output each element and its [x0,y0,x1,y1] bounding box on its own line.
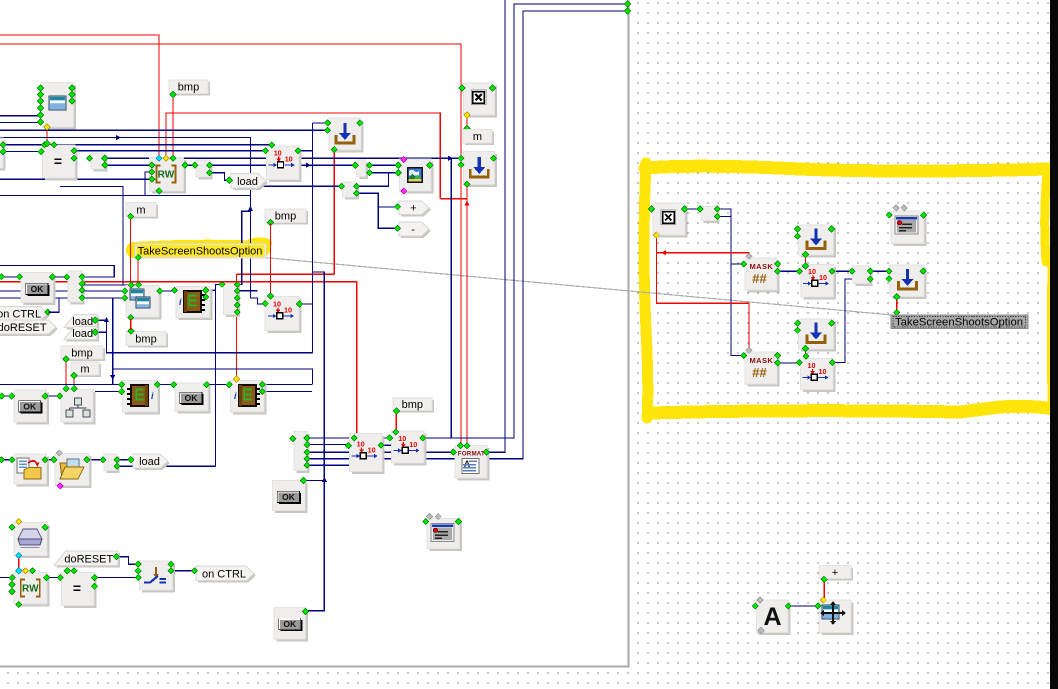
red arrow up [464,201,469,206]
component delay 10 block R2 [801,359,836,393]
component RW file block 1 [149,158,186,194]
label minus [399,222,431,238]
wire blue abox to move [789,605,817,607]
svg-text:bmp: bmp [275,211,296,223]
wire blue mask2 to tenboxR2 [778,362,799,364]
svg-text:10: 10 [274,149,282,158]
label load 4 [64,326,99,341]
yellow marker rectangle left stroke [644,163,648,418]
label bmp 1 [169,80,210,96]
wire blue bus y137 [0,138,264,304]
label load 1 [231,174,268,191]
hub point R1 [701,207,720,224]
wire blue hub5 buses y465 [308,464,361,466]
svg-text:load: load [72,328,93,340]
svg-text:load: load [237,176,258,188]
component window copy block [126,286,162,320]
wire blue v312 to bus353 [311,304,313,353]
component equals block 1 [43,145,78,181]
component small box at left edge [0,138,6,171]
wire red save1 drop [333,151,335,274]
wire red form to eq [46,128,48,142]
wire blue v112 [112,298,114,385]
svg-text:on CTRL: on CTRL [202,568,246,580]
component form window U1 [42,83,76,130]
wire blue hub5 buses y458 [308,11,628,459]
wire blue okA to hub [52,276,67,278]
label bmp 4 [393,398,434,413]
svg-text:bmp: bmp [402,399,423,411]
wire red key drop [18,556,20,569]
svg-text:=: = [54,153,62,169]
component delay 10 block mid [265,297,302,334]
node canvas edge pin 1 [624,1,630,7]
label TakeScreenShootsOption yellow [135,244,266,259]
svg-text:+: + [832,567,838,579]
component folder picture block [55,454,92,489]
wire blue hubB up [357,173,389,187]
component save bitmap 2 [463,152,497,188]
svg-text:m: m [473,131,482,143]
svg-text:10: 10 [409,440,417,449]
wire blue bus y186 [60,186,123,285]
wire blue hubB to plus [357,193,397,207]
wire red junction y199 [440,198,467,200]
svg-text:bmp: bmp [178,82,199,94]
wire blue mask1 to tenboxR1 [778,270,800,272]
hub point 1 [91,153,108,172]
wire blue left y123 [0,122,40,124]
wire blue y144 [3,144,269,146]
wire blue hubA2 to picture2 [370,172,397,174]
wire blue v451 [450,158,452,438]
svg-text:load: load [139,456,160,468]
label m 3 [71,362,101,377]
svg-text:A: A [763,603,781,631]
wire blue hub2 to load [210,173,228,181]
blue arrow right y165 [306,163,311,168]
wire blue hubR2 down [833,279,852,363]
wire red xbox pin stub [466,116,468,127]
component OK button C [175,383,211,414]
wire red bmp drop [172,94,174,157]
wire red bmp2 drop [270,223,272,295]
hub point B [343,182,360,200]
label plus [399,201,431,217]
wire red h274 [237,273,335,275]
hub point R2 [853,266,873,286]
wire red to FORMAT pin2 [466,199,468,443]
component delay 10 block R1 [801,265,836,300]
svg-text:on CTRL: on CTRL [0,309,41,321]
wire red to ibox2 [236,274,238,376]
label doRESET [54,551,120,568]
wire red xbox2 branch [656,253,749,255]
wire blue v505 [487,0,505,452]
wire blue tenboxR1 to hubR2 [833,270,853,272]
wire blue xbox2 to hubR1 [686,208,700,210]
wire blue v731 to mask1 [731,263,745,265]
svg-text:10: 10 [819,367,827,376]
label on CTRL left-cut [0,307,50,323]
wire red plus2 drop [823,580,825,599]
wire blue switch feed [117,557,137,565]
component document open block [14,454,49,487]
wire red bmp3 drop [65,360,67,386]
wire blue bus y297 [0,297,124,299]
yellow marker rectangle bottom stroke [650,406,1054,413]
label m 2 [126,202,158,218]
svg-text:MASK: MASK [750,262,774,271]
wire blue to minus [378,207,396,228]
wire red from save2 bottom [466,186,468,199]
component MASK block 1 [745,258,780,293]
wire blue rw left loop [145,172,151,196]
svg-text:OK: OK [282,492,296,502]
component keyboard key block [14,522,50,558]
svg-text:10: 10 [357,440,365,449]
wire blue tree to ibox1 [95,391,121,393]
wire blue switch to onctrl [172,570,194,572]
svg-text:10: 10 [808,361,816,370]
svg-text:10: 10 [808,267,816,276]
wire blue load4 link [96,331,107,333]
svg-text:bmp: bmp [135,334,156,346]
wire blue doc chain1 [0,459,12,461]
wire blue ok3 to v324 [305,480,325,482]
svg-text:OK: OK [23,401,37,411]
svg-text:##: ## [752,365,767,380]
component move window block [819,600,854,635]
wire red saveR2 to label [896,298,898,313]
svg-text:+: + [410,203,416,215]
label bmp 3 [61,346,105,361]
label load 2 [133,454,170,470]
label bmp 2 [265,209,308,225]
svg-text:FORMAT: FORMAT [458,451,485,458]
wire blue folder to hubC [88,459,104,461]
label TakeScreenShootsOption gray [891,315,1028,329]
wire blue hubR2 to saveR2 [871,270,888,272]
gray drag line from yellow label to gray label [138,246,892,315]
blue arrow up on x324 [322,477,327,482]
wire blue hubR1 to masks [718,209,746,356]
wire blue ibox2 to hub [263,391,312,393]
svg-text:##: ## [752,271,767,286]
svg-text:doRESET: doRESET [0,322,47,334]
wire blue U jog [0,266,114,277]
svg-text:OK: OK [31,284,45,294]
wire red xbox2 tree [656,236,749,349]
svg-text:RW: RW [158,170,175,181]
blue arrow right on y158 [448,156,453,161]
wire red bus y113 [166,113,440,199]
component save bitmap 1 [329,118,364,153]
wire blue hubC up to v215 [118,465,216,467]
component equals block 2 [62,573,97,609]
label m 1 [463,130,494,146]
wire blue bus y284 [82,284,136,286]
svg-text:10: 10 [398,434,406,443]
wire blue hub5 buses y444 [308,444,348,446]
yellow marker rectangle top stroke (right canvas) [645,166,1048,171]
hub point C [104,454,120,473]
svg-text:=: = [73,580,81,596]
component font A block [757,600,791,635]
wire blue y151 left [3,151,40,153]
component FORMAT block [455,446,490,481]
wire red saveR3 to tenboxR2 [805,349,807,355]
wire blue bus y195 [0,195,250,197]
wire red bus y282 [0,281,357,283]
component list i block 1 [123,380,161,414]
svg-text:10: 10 [819,273,827,282]
wire blue bus y290 [0,290,124,292]
svg-text:TakeScreenShootsOption: TakeScreenShootsOption [895,316,1023,328]
svg-text:OK: OK [283,619,297,629]
component message window block 2 [891,211,927,246]
component OK button E [274,608,308,642]
wire blue bus y396 [1,395,60,397]
yellow marker rectangle right stroke [1045,174,1047,262]
hub strip 4 [223,284,240,318]
component close X block 1 [463,83,497,118]
wire blue ibox3 to hub4 [206,284,221,290]
wire blue tb2 out [382,444,392,446]
component RW file block 2 [14,573,50,607]
component tree block [61,390,96,425]
svg-text:TakeScreenShootsOption: TakeScreenShootsOption [138,246,263,258]
wire blue rw to hub2 to hubA [186,164,355,166]
wire blue bus y369 [113,369,313,385]
hub strip left [68,271,85,305]
label bmp 2b [126,332,168,348]
svg-text:10: 10 [273,300,281,309]
white parent container canvas [0,0,628,666]
component OK button B [14,390,49,425]
component picture block [400,159,434,194]
wire blue eq to tenbox [75,150,265,152]
label plus 2 [819,566,853,581]
component switch block [139,561,175,593]
wire blue hubA to picture [370,164,397,166]
svg-text:10: 10 [368,446,376,455]
component delay 10 block 2 [350,433,385,474]
wire blue tenbox to save1 [298,150,312,152]
wire blue tb3 to v514 [424,4,628,438]
wire red m3 drop [73,377,75,386]
svg-text:MASK: MASK [750,356,774,365]
wire blue hub4 out1 [237,290,257,292]
wire blue v312 [299,123,312,304]
wire blue onctrl2 up [49,298,60,312]
label doRESET left-cut [0,320,58,336]
wire blue hubB feed [251,185,341,187]
yellow marker highlight around TakeScreenShootsOption label (left canvas) [134,248,262,250]
svg-text:bmp: bmp [71,348,92,360]
component close X block 2 [653,203,688,238]
red arrow left [661,250,666,255]
component delay 10 block 1 [267,146,302,182]
wire red bus y44 [0,44,461,443]
svg-text:10: 10 [285,155,293,164]
wire red bmp4 drop [395,412,397,429]
component list i block 3 [176,286,213,320]
svg-text:m: m [136,204,145,216]
node canvas edge pin 2 [624,8,630,14]
wire blue rw2 to eq2 [46,577,59,579]
wire blue left to rw2 [0,577,11,579]
hub point 2 [196,160,213,180]
component delay 10 block 3 [391,431,426,466]
component save bitmap R1 [799,225,837,257]
svg-text:OK: OK [185,393,199,403]
wire blue eq2 to switch [94,577,137,579]
wire blue jog to hub4 [238,211,250,284]
blue arrow up on x250 [248,206,253,211]
wire blue hub5 buses y438 [308,437,389,439]
wire blue hubC to load2 [118,459,130,461]
wire blue hubR1 stub [718,216,732,218]
wire red wincopy to bmp [130,319,132,330]
component save bitmap R3 [799,319,837,352]
svg-text:10: 10 [284,306,292,315]
hub point A [357,160,368,179]
wire blue left y116 [0,115,40,117]
svg-text:doRESET: doRESET [64,553,113,565]
component MASK block 2 [745,352,780,387]
component OK button A [21,273,56,306]
wire red m2 drop [130,218,132,282]
wire blue bus y179 [0,178,151,180]
blue arrow up x106 [104,317,109,322]
wire blue bus y130 [0,129,326,131]
hub strip 5 [294,432,310,474]
wire blue doc chain2 [46,459,53,461]
wire red bus y282 overlay [220,281,240,283]
wire blue bus y158 [105,157,460,159]
component save bitmap R2 [890,265,927,299]
wire red saveR1 to tenboxR1 [805,256,807,266]
black window edge bar [1050,0,1058,689]
svg-text:-: - [411,224,415,236]
blue arrow right on y137 [116,135,121,140]
label on CTRL [196,566,256,583]
wire blue hub5 buses y452 [308,451,453,453]
blue arrow down x112 [110,375,115,380]
label load 3 [64,315,99,330]
svg-text:m: m [80,364,89,376]
component list i block 2 [231,380,267,414]
wire blue bus y385 [0,384,312,386]
component message window block 1 [427,519,462,552]
wire blue loads to bus353 [96,320,312,353]
wire red TSS drop [137,258,139,282]
wire red bus y35 [0,35,159,157]
wire blue wincopy to ibox3 [160,290,172,292]
wire blue v215 [215,290,217,466]
wire blue v324 [307,272,325,611]
svg-text:RW: RW [22,584,39,595]
wire blue y165 hub to rw [105,164,151,166]
component OK button D [273,481,308,514]
wire red to tenbox2 [356,282,358,435]
